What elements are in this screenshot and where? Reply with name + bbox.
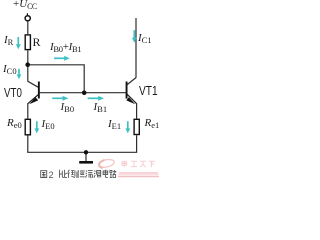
svg-text:2: 2 [49,170,54,180]
